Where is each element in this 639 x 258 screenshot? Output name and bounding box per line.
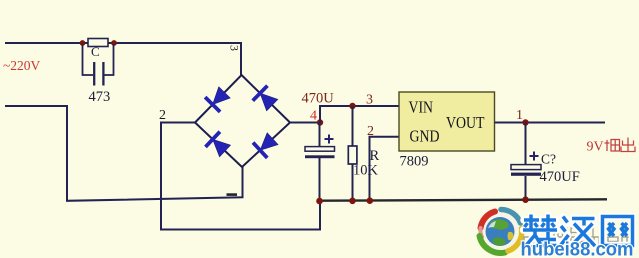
watermark globe logo — [478, 209, 524, 255]
resistor R body — [348, 146, 357, 164]
watermark char wang (blue) — [603, 217, 633, 246]
svg-text:470U: 470U — [302, 91, 335, 107]
svg-text:10K: 10K — [353, 163, 379, 179]
wire: AC neutral from left edge down and to bridge bottom — [5, 106, 243, 201]
resistor R branch wire bottom — [352, 164, 354, 201]
wire: bottom DC rail — [320, 199, 607, 200]
wire: node 4 up to VIN rail — [320, 106, 399, 123]
svg-text:2: 2 — [159, 108, 166, 123]
capacitor 470U electrolytic: plus sign — [325, 135, 334, 144]
yellow ribbon lower-right — [508, 229, 522, 252]
bridge rectifier diamond wires — [195, 75, 290, 167]
svg-text:1: 1 — [516, 108, 523, 123]
watermark gray text row behind — [545, 228, 593, 237]
fake glyph shu (output) — [605, 140, 620, 152]
teal ribbon upper-right — [501, 210, 521, 224]
node dot 1 — [522, 119, 528, 125]
svg-text:C: C — [91, 44, 100, 59]
wire: bridge right vertex to node 4 — [290, 122, 320, 124]
watermark char chu (blue) — [523, 215, 557, 247]
svg-text:3: 3 — [366, 93, 373, 108]
wire: input cap lead down from node 4 — [319, 123, 321, 148]
capacitor 470U top plate (outlined) — [305, 147, 335, 152]
node dot output cap bottom — [522, 196, 529, 203]
capacitor 470U bottom plate (solid) — [305, 155, 335, 158]
wire: node 2 path from bridge left vertex to bottom rail — [161, 123, 320, 230]
diode D2 upper-right — [253, 86, 280, 113]
svg-text:VOUT: VOUT — [446, 113, 485, 132]
diode D3 lower-left — [205, 132, 232, 159]
svg-text:7809: 7809 — [400, 154, 429, 170]
wire: output cap lead to bottom rail — [525, 176, 527, 200]
svg-text:9V: 9V — [587, 140, 604, 155]
wire: input cap lead down to bottom rail — [319, 158, 321, 201]
watermark char wang (white halo) — [603, 217, 633, 246]
capacitor C? plus sign — [530, 152, 539, 161]
svg-text:4: 4 — [310, 109, 317, 124]
svg-text:C?: C? — [541, 152, 556, 167]
wire: output cap lead down from node 1 — [525, 123, 527, 165]
node dot 4 — [317, 119, 323, 125]
capacitor 473 plates — [93, 62, 95, 86]
earth center — [486, 217, 515, 246]
node dot left of C — [80, 40, 86, 46]
capacitor C? top plate (outlined) — [511, 165, 541, 170]
node dot cap- — [316, 198, 323, 205]
svg-text:VIN: VIN — [409, 98, 434, 117]
svg-text:hubei88.com: hubei88.com — [521, 240, 634, 258]
wire: GND pin to bottom rail — [370, 137, 400, 201]
capacitor C (box symbol) on top rail — [88, 39, 108, 47]
diode D4 lower-right — [253, 131, 280, 158]
node dot right of C — [111, 40, 117, 46]
minus sign near bridge bottom — [227, 193, 238, 196]
svg-text:3: 3 — [227, 45, 241, 51]
green ribbon lower-left — [480, 236, 506, 253]
wire: VOUT rail — [495, 122, 606, 124]
watermark char chu (white halo) — [524, 216, 557, 246]
watermark char han (blue) — [560, 217, 595, 247]
wire: parallel capacitor drops for 473 — [83, 44, 94, 75]
svg-text:GND: GND — [410, 127, 440, 146]
diode D1 upper-left — [205, 85, 232, 112]
node dot at resistor top — [349, 103, 355, 109]
node dot gnd bottom — [367, 197, 374, 204]
red ribbon upper-left — [481, 212, 496, 229]
wire: top AC rail from left edge to bridge top — [5, 43, 241, 75]
svg-text:470UF: 470UF — [540, 169, 580, 185]
svg-text:473: 473 — [89, 89, 111, 105]
svg-text:~220V: ~220V — [3, 58, 41, 73]
capacitor C? bottom plate (solid) — [511, 173, 541, 176]
node dot resistor bottom — [349, 198, 356, 205]
fake glyph chu (output) — [621, 138, 635, 152]
regulator U1 7809 body — [399, 92, 495, 151]
resistor R branch wire top — [352, 106, 354, 146]
watermark char han (white halo) — [560, 217, 595, 246]
